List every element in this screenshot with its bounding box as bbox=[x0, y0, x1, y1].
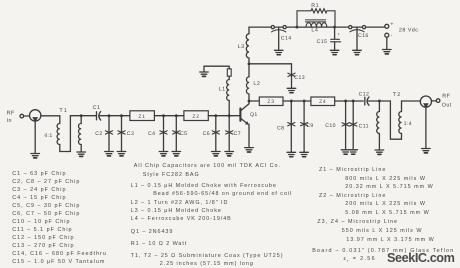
parts list column 1 bbox=[12, 170, 107, 267]
ground (C14) bbox=[274, 50, 283, 54]
capacitor C6 (chip) bbox=[212, 131, 219, 134]
wire node C9 bbox=[303, 101, 305, 152]
transformer T1 4:1 (coax) bbox=[57, 116, 70, 152]
transistor Q1 2N6439 bbox=[239, 108, 241, 120]
wire node C3 bbox=[121, 116, 123, 152]
ground (RF Out) bbox=[422, 149, 431, 153]
ground (T2) bbox=[375, 150, 384, 154]
capacitor C2 (chip) bbox=[105, 131, 112, 134]
capacitor C13 bbox=[291, 64, 293, 88]
wire L1 to ground stub bbox=[204, 66, 229, 72]
svg-text:L3: L3 bbox=[238, 44, 245, 50]
wire connector shield to ground bbox=[425, 107, 427, 148]
inductor L2 bbox=[246, 64, 249, 101]
ground (C9) bbox=[300, 152, 309, 156]
ground (C13) bbox=[287, 88, 296, 92]
microstrip Z4 bbox=[311, 97, 335, 106]
svg-text:Z1: Z1 bbox=[138, 114, 145, 120]
ground (C5) bbox=[172, 152, 181, 156]
wire Q1 emitter to ground bbox=[248, 124, 250, 147]
svg-text:In: In bbox=[7, 118, 12, 124]
wire node C5 bbox=[175, 116, 177, 152]
svg-text:T2: T2 bbox=[393, 92, 402, 98]
capacitor C1 (series) bbox=[96, 112, 98, 120]
svg-text:R1: R1 bbox=[311, 3, 319, 9]
svg-text:Z3: Z3 bbox=[267, 99, 274, 105]
svg-text:C10: C10 bbox=[325, 123, 336, 129]
inductor L3 bbox=[246, 27, 249, 64]
capacitor C7 (chip) bbox=[226, 131, 233, 134]
inductor L4 with core bbox=[306, 23, 327, 27]
svg-text:+: + bbox=[338, 32, 341, 37]
svg-text:C1: C1 bbox=[93, 105, 101, 111]
svg-text:-: - bbox=[391, 33, 393, 39]
wire node C2 bbox=[108, 116, 110, 152]
wire Q1 collector to Z3 bbox=[249, 100, 259, 102]
svg-text:1:4: 1:4 bbox=[404, 121, 412, 127]
parts list column 3 bbox=[319, 167, 386, 173]
ground (28V return) bbox=[383, 50, 392, 54]
ground (C2) bbox=[105, 152, 114, 156]
wire node C7 bbox=[228, 116, 230, 152]
svg-text:C15: C15 bbox=[317, 39, 328, 45]
svg-text:+: + bbox=[390, 22, 393, 28]
capacitor C10 (chip) bbox=[342, 123, 349, 126]
svg-text:L4: L4 bbox=[311, 27, 318, 33]
svg-text:T1: T1 bbox=[59, 108, 68, 114]
capacitor C15 tantalum bbox=[333, 26, 336, 29]
svg-text:C4: C4 bbox=[148, 131, 155, 137]
ground (C11) bbox=[349, 150, 358, 154]
wire C12 to T2 bbox=[367, 101, 401, 139]
capacitor C16 feedthru bbox=[349, 26, 352, 29]
terminal - 28 Vdc bbox=[385, 33, 389, 37]
svg-text:C14: C14 bbox=[281, 35, 292, 41]
node RF Out terminal bbox=[432, 100, 437, 102]
svg-text:C3: C3 bbox=[127, 131, 134, 137]
capacitor C8 (chip) bbox=[288, 123, 295, 126]
svg-text:C7: C7 bbox=[234, 131, 241, 137]
connector J1 RF In (coax) bbox=[30, 110, 41, 121]
svg-text:C13: C13 bbox=[294, 75, 305, 81]
node RF In terminal bbox=[20, 114, 24, 118]
wire Z4 to C12 bbox=[335, 100, 364, 102]
resistor R1 bbox=[296, 26, 299, 29]
wire L3/L2 node to C13 bbox=[249, 63, 292, 65]
ground (RF In) bbox=[31, 154, 40, 158]
wire terminal to connector bbox=[24, 115, 30, 117]
svg-text:C12: C12 bbox=[359, 91, 370, 97]
wire connector to T1 bbox=[41, 115, 60, 117]
svg-text:L1: L1 bbox=[219, 86, 226, 92]
microstrip Z2 bbox=[184, 111, 208, 121]
capacitor C9 (chip) bbox=[301, 123, 308, 126]
capacitor C13x (chip) bbox=[288, 73, 295, 76]
svg-text:Q1: Q1 bbox=[250, 112, 258, 118]
ground (L1 bias) bbox=[200, 72, 209, 76]
wire connector shield to ground bbox=[34, 121, 36, 153]
wire supply rail bbox=[249, 26, 385, 28]
wire node C11 bbox=[352, 101, 354, 150]
terminal +28 Vdc bbox=[385, 24, 389, 28]
inductor L1 with ferrite bead bbox=[227, 76, 230, 116]
svg-text:RF: RF bbox=[7, 110, 15, 116]
svg-text:C6: C6 bbox=[203, 131, 210, 137]
capacitor C11 (chip) bbox=[350, 123, 357, 126]
ground (C10) bbox=[341, 150, 350, 154]
capacitor C5 (chip) bbox=[173, 131, 180, 134]
svg-text:C9: C9 bbox=[306, 123, 313, 129]
svg-text:C5: C5 bbox=[180, 131, 187, 137]
svg-text:28 Vdc: 28 Vdc bbox=[399, 28, 418, 34]
wire node C4 bbox=[163, 116, 165, 152]
svg-text:Out: Out bbox=[442, 102, 452, 108]
svg-text:RF: RF bbox=[442, 94, 450, 100]
svg-text:C16: C16 bbox=[358, 33, 369, 39]
capacitor C14 feedthru bbox=[271, 26, 274, 29]
wire Z3 to Z4 bbox=[283, 100, 311, 102]
wire Z2 to Q1 base bbox=[208, 115, 239, 117]
connector J2 RF Out (coax) bbox=[420, 96, 431, 107]
svg-text:C8: C8 bbox=[277, 125, 284, 131]
capacitor C4 (chip) bbox=[160, 131, 167, 134]
svg-text:Z2: Z2 bbox=[192, 114, 199, 120]
wire Z1 to Z2 bbox=[154, 115, 184, 117]
parts list column 2 bbox=[134, 163, 281, 169]
svg-text:C11: C11 bbox=[359, 124, 369, 130]
ground (C6) bbox=[212, 152, 221, 156]
capacitor C3 (chip) bbox=[118, 131, 125, 134]
ground (C8) bbox=[287, 152, 296, 156]
wire node C10 bbox=[345, 101, 347, 150]
wire - terminal to ground bbox=[386, 37, 388, 49]
ground (C16) bbox=[353, 50, 362, 54]
ground (C15) bbox=[330, 50, 339, 54]
ground (C3) bbox=[117, 152, 126, 156]
svg-text:L2: L2 bbox=[253, 81, 260, 87]
ground (Q1 emitter) bbox=[245, 148, 254, 152]
ferrite bead on L1 bbox=[227, 69, 231, 76]
ground (C7) bbox=[225, 152, 234, 156]
transformer T2 1:4 (coax) bbox=[377, 101, 380, 150]
wire node C8 bbox=[290, 101, 292, 152]
wire T2 to RF Out connector bbox=[402, 100, 421, 102]
ground (C4) bbox=[159, 152, 168, 156]
wire C1 to Z1 bbox=[99, 115, 130, 117]
ground (T1) bbox=[77, 152, 86, 156]
capacitor C12 (series) bbox=[364, 97, 366, 105]
svg-text:C2: C2 bbox=[95, 131, 102, 137]
svg-text:4:1: 4:1 bbox=[44, 133, 52, 139]
svg-text:Z4: Z4 bbox=[319, 99, 326, 105]
watermark SeekIC.com bbox=[387, 251, 454, 265]
wire node C6 bbox=[215, 116, 217, 152]
microstrip Z3 bbox=[259, 97, 283, 106]
microstrip Z1 bbox=[130, 111, 155, 121]
